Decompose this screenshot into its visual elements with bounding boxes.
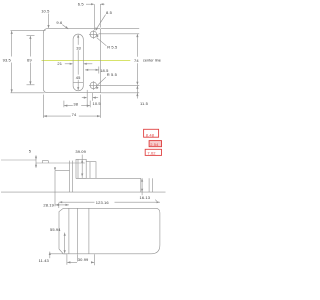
view2 tab1 <box>42 161 48 163</box>
hole bottom circle <box>90 82 97 89</box>
dim 123.16 <box>59 201 95 203</box>
dim 8.5 leader <box>96 15 106 31</box>
hole top cross <box>89 33 98 35</box>
view2 dim 5 <box>35 155 37 168</box>
hole bottom cross <box>89 84 98 86</box>
red box 8.48 <box>144 129 159 137</box>
svg-text:16.13: 16.13 <box>140 195 151 200</box>
svg-text:30.99: 30.99 <box>78 257 89 262</box>
svg-text:11.43: 11.43 <box>39 258 50 263</box>
svg-text:10.5: 10.5 <box>93 101 102 106</box>
arrowheads <box>11 3 160 263</box>
svg-text:8.5: 8.5 <box>106 10 113 15</box>
svg-text:93.5: 93.5 <box>3 57 12 62</box>
view2 bottom long line <box>1 191 166 193</box>
svg-text:center line: center line <box>143 59 161 63</box>
dim 33 45 slot vertical <box>77 35 79 45</box>
view3 dim 55.94 <box>64 233 66 254</box>
dim 6.5 top <box>86 3 94 5</box>
red box 2.54 <box>149 141 161 147</box>
view2 right verticals <box>140 178 142 192</box>
svg-text:38: 38 <box>73 101 78 106</box>
svg-text:69: 69 <box>27 57 32 62</box>
svg-text:55.94: 55.94 <box>50 227 61 232</box>
svg-text:6.5: 6.5 <box>78 1 85 6</box>
view3 inner verticals <box>68 208 70 254</box>
leader R5.5 bottom <box>97 77 106 86</box>
view2 dim 16.13 <box>141 178 143 195</box>
centerline yellow <box>42 60 131 62</box>
svg-text:R 5.5: R 5.5 <box>107 45 118 50</box>
plate outline top view <box>43 28 100 92</box>
dim 21 slot <box>65 63 73 65</box>
svg-text:45: 45 <box>76 75 81 80</box>
view3 outline <box>59 208 160 254</box>
svg-text:7.62: 7.62 <box>147 151 156 156</box>
dim 10.5 top leader <box>48 14 50 28</box>
dim 11.5 right <box>136 86 138 99</box>
svg-text:21: 21 <box>57 61 62 66</box>
dim 9.6 leader <box>62 25 68 29</box>
slot obround <box>73 34 83 91</box>
view2 lower line <box>36 162 85 164</box>
svg-text:28.19: 28.19 <box>43 203 54 208</box>
view2 box B <box>86 162 96 179</box>
view2 dim 39.09 line <box>81 155 83 178</box>
dim 38 bottom <box>63 101 65 108</box>
view3 dim 11.43 <box>49 252 51 259</box>
red box 7.62 <box>145 149 161 155</box>
view2 box A <box>76 159 86 178</box>
dim 74 right <box>101 27 139 29</box>
svg-text:74: 74 <box>134 58 139 63</box>
svg-text:10.5: 10.5 <box>41 9 50 14</box>
dim 74 bottom <box>42 95 44 118</box>
view2 inner step <box>55 170 70 172</box>
svg-text:123.16: 123.16 <box>96 200 110 205</box>
view3 dim 30.99 <box>66 254 68 265</box>
dim 10.5 bottom small <box>86 90 88 107</box>
svg-text:R 5.5: R 5.5 <box>107 72 118 77</box>
leader R5.5 top <box>97 38 107 46</box>
svg-text:33: 33 <box>76 45 81 50</box>
svg-text:9.6: 9.6 <box>56 20 63 25</box>
svg-text:39.09: 39.09 <box>75 149 86 154</box>
hole top circle <box>90 31 97 38</box>
svg-text:8.48: 8.48 <box>146 132 155 137</box>
view2 dim 28.19 ext <box>54 171 56 207</box>
view2 plate top line <box>1 159 36 161</box>
view2 step line right <box>76 177 141 179</box>
svg-text:2.54: 2.54 <box>150 142 159 147</box>
svg-text:5: 5 <box>29 149 32 154</box>
tick near 16.13 <box>155 200 157 202</box>
slot chord line <box>73 82 83 84</box>
dim 18.5 <box>85 69 98 71</box>
svg-text:11.5: 11.5 <box>140 101 149 106</box>
dim 93.5 left <box>11 31 13 57</box>
svg-text:74: 74 <box>72 112 77 117</box>
dim 69 left <box>29 36 31 56</box>
